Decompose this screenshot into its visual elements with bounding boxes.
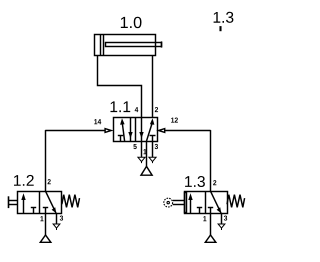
valve 1.1 exhaust 5 — [141, 141, 143, 157]
roller plunger plate — [185, 193, 187, 213]
valve 1.3 body — [185, 192, 228, 214]
label 1.1 — [110, 101, 130, 112]
roller actuator (1.3) — [164, 198, 173, 207]
valve 1.3 exhaust 3 — [221, 214, 223, 225]
port label 3 (1.3) — [224, 216, 227, 221]
label 1.2 — [14, 175, 34, 186]
wire cylinder left port to valve 1.1 port 4 — [98, 56, 142, 118]
label 1.3 (marker top right) — [214, 12, 234, 23]
port label 1 (1.2) — [40, 216, 43, 221]
wire pilot 14 to valve 1.2 port 2 — [45, 130, 47, 191]
port label 2 (1.3) — [213, 180, 216, 185]
valve 1.3 left square blocked T — [197, 207, 202, 209]
port label 5 — [133, 144, 136, 149]
valve 1.2 left square blocked T — [31, 207, 36, 209]
valve 1.2 body — [18, 192, 62, 214]
valve 1.1 exhaust 3 — [152, 141, 154, 157]
spring return (1.3) — [227, 195, 245, 208]
cylinder rod end cap — [161, 41, 163, 47]
port label 3 — [155, 144, 158, 149]
valve 1.1 left square blocked port 5 T — [118, 135, 124, 137]
pilot arrow 14 — [105, 129, 111, 133]
valve 1.1 right square flow 1-2 arrow — [147, 123, 153, 141]
label 14 — [94, 119, 101, 124]
port label 1 — [143, 149, 146, 154]
wire pilot 12 to valve 1.3 port 2 — [210, 130, 212, 191]
pilot line 12 — [165, 130, 211, 132]
valve 1.1 left square flow 2-3 arrow — [130, 118, 132, 141]
cylinder piston rod — [106, 43, 162, 47]
marker tick — [219, 26, 221, 31]
pilot arrow 12 — [159, 129, 165, 133]
port label 3 (1.2) — [60, 216, 63, 221]
valve 1.1 body — [114, 118, 158, 142]
label 1.3 — [185, 176, 205, 187]
valve 1.1 supply source — [146, 141, 148, 166]
valve 1.2 supply source — [45, 214, 47, 236]
pilot line 14 — [45, 130, 105, 132]
valve 1.3 left square flow 1-2 arrow — [190, 200, 192, 214]
valve 1.1 left square flow 1-4 arrow — [122, 123, 124, 141]
port label 2 — [155, 107, 158, 112]
cylinder piston — [100, 34, 102, 56]
wire cylinder right port to valve 1.1 port 2 — [152, 56, 154, 118]
valve 1.2 right square flow 2-3 arrow — [46, 191, 57, 213]
valve 1.2 right square blocked T — [43, 207, 48, 209]
valve 1.2 left square flow 1-2 arrow — [23, 200, 25, 214]
port label 4 — [135, 107, 139, 112]
valve 1.2 exhaust 3 — [56, 214, 58, 225]
label 1.0 — [121, 17, 142, 28]
valve 1.1 right square flow 4-5 arrow — [141, 118, 143, 141]
cylinder 1.0 body — [95, 35, 156, 56]
valve 1.3 right square blocked T — [208, 207, 213, 209]
pushbutton actuator (1.2) — [8, 196, 10, 208]
port label 1 (1.3) — [203, 216, 206, 221]
port label 2 (1.2) — [48, 179, 51, 184]
valve 1.3 supply source — [210, 214, 212, 236]
valve 1.1 right square blocked port 3 T — [150, 135, 156, 137]
valve 1.3 right square flow 2-3 arrow — [211, 191, 222, 213]
label 12 — [171, 118, 178, 123]
spring return (1.2) — [62, 195, 80, 208]
